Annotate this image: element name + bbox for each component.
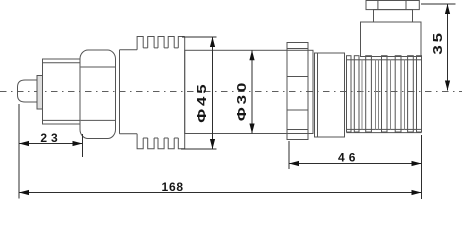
- fin 3: [158, 37, 164, 149]
- hex facet line upper: [81, 66, 115, 68]
- hex nut: [80, 50, 116, 139]
- collar facet line lower: [287, 109, 308, 111]
- connector rib 2: [354, 56, 359, 132]
- svg-text:46: 46: [338, 150, 359, 164]
- dim phi45 arrow up: [210, 37, 215, 47]
- connector end band: [417, 56, 422, 132]
- top bar divider right: [405, 1, 407, 10]
- web 2-3: [154, 48, 158, 138]
- svg-text:35: 35: [431, 30, 446, 55]
- terminal top bar: [366, 1, 419, 10]
- terminal neck: [374, 10, 413, 22]
- dim 35 arrow down: [445, 81, 450, 91]
- svg-text:Φ30: Φ30: [235, 80, 250, 121]
- dim 23 extension line left: [18, 104, 20, 199]
- connector rib 5: [395, 56, 401, 132]
- connector groove line d: [390, 60, 392, 130]
- pressure port tip: [18, 80, 38, 102]
- collar facet line upper: [287, 76, 308, 78]
- dim phi30 arrow down: [249, 124, 254, 134]
- fin 1: [137, 37, 143, 149]
- dim 23 line: [19, 143, 83, 145]
- thread crest line bottom: [43, 119, 81, 121]
- collar chamfer line top: [287, 48, 308, 50]
- mid housing section: [315, 53, 345, 137]
- dim 23 arrow right: [73, 141, 83, 146]
- fin core collar: [120, 50, 138, 134]
- web 4-5: [174, 48, 178, 138]
- dim 168 arrow right: [412, 190, 422, 195]
- dim phi30 arrow up: [249, 50, 254, 60]
- hex facet line lower: [81, 119, 115, 121]
- dim 23 extension line right: [82, 134, 84, 157]
- connector groove line a: [361, 60, 363, 130]
- connector groove line c: [378, 60, 380, 130]
- dim 35 line: [447, 4, 449, 91]
- connector rib 1: [347, 56, 352, 132]
- dim 46 extension line left: [288, 141, 290, 169]
- thread crest line top: [43, 62, 81, 64]
- connector valley outline: [347, 60, 422, 130]
- svg-text:Φ45: Φ45: [195, 81, 210, 122]
- fin 2: [148, 37, 154, 149]
- centerline: [0, 91, 462, 93]
- washer flange: [37, 76, 43, 110]
- collar chamfer line bottom: [287, 129, 308, 131]
- svg-text:23: 23: [40, 131, 61, 145]
- clamping collar nut: [287, 43, 308, 140]
- top bar divider left: [377, 1, 379, 10]
- dim 46 arrow left: [289, 161, 299, 166]
- dim phi45 line: [212, 37, 214, 149]
- dim phi30 line: [251, 50, 253, 133]
- connector rib 4: [382, 56, 388, 132]
- connector rib 6: [408, 56, 414, 132]
- mid housing groove: [317, 53, 319, 137]
- web 1-2: [143, 48, 148, 138]
- main cylinder phi45/phi30 body: [185, 50, 313, 133]
- dim 168 arrow left: [19, 190, 29, 195]
- dim 168 line: [19, 192, 422, 194]
- dim 46 line: [289, 163, 422, 165]
- dim phi45 extension line top: [182, 36, 217, 38]
- dim phi45 extension line bottom: [181, 148, 217, 150]
- threaded body: [43, 59, 81, 124]
- connector groove line e: [404, 60, 406, 130]
- svg-text:168: 168: [161, 180, 183, 194]
- connector groove line b: [375, 60, 377, 130]
- dim 35 extension line top: [421, 3, 456, 5]
- fin 4: [168, 37, 174, 149]
- connector base bottom line: [347, 132, 422, 134]
- fin 5: [178, 37, 184, 149]
- terminal box: [361, 22, 422, 57]
- dim phi45 arrow down: [210, 139, 215, 149]
- dim 23 arrow left: [19, 141, 29, 146]
- connector rib 3: [366, 56, 372, 132]
- web 3-4: [164, 48, 168, 138]
- dim 35 arrow up: [445, 4, 450, 14]
- dim 46 arrow right: [412, 161, 422, 166]
- dim 46 extension line right: [421, 135, 423, 199]
